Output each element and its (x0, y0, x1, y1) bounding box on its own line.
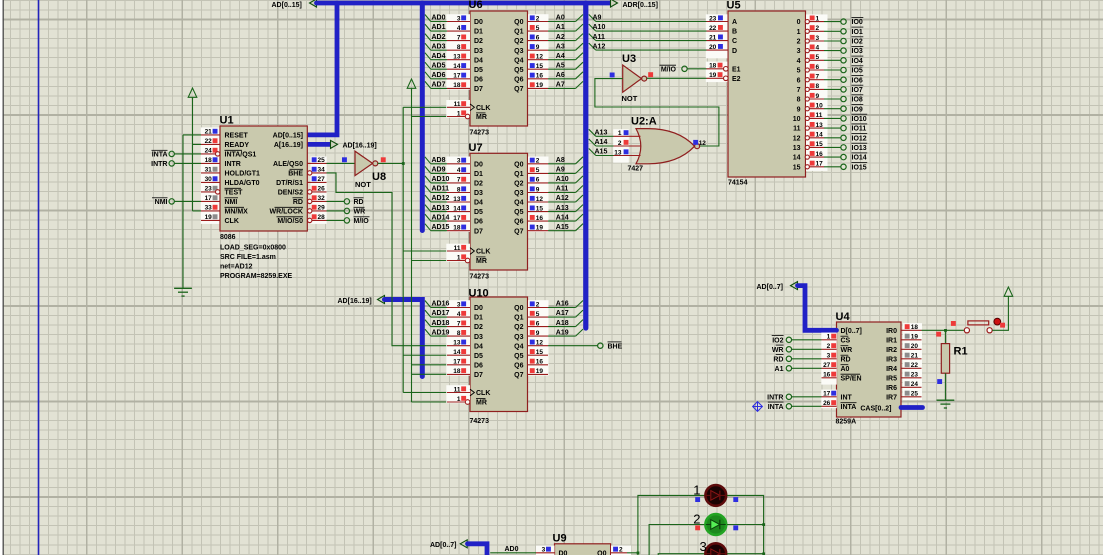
svg-text:14: 14 (453, 63, 461, 70)
terminal IO9 (824, 108, 841, 110)
wire INTR to U1 (174, 162, 201, 164)
wire R1 to ground (944, 373, 946, 400)
svg-text:9: 9 (536, 330, 540, 337)
svg-text:22: 22 (205, 138, 213, 145)
sheet blue border (38, 0, 40, 555)
svg-text:D7: D7 (474, 86, 483, 93)
net label A6 (548, 78, 576, 80)
U4 pin 24 (IR6) (901, 386, 922, 388)
svg-text:IR5: IR5 (886, 375, 897, 382)
svg-text:4: 4 (816, 44, 820, 51)
net label A9 (548, 172, 576, 174)
U10 pin 6 (Q2) (528, 326, 549, 328)
svg-text:Q6: Q6 (514, 219, 523, 226)
svg-text:0: 0 (797, 19, 801, 26)
svg-text:AD8: AD8 (432, 157, 446, 164)
svg-text:IO9: IO9 (852, 106, 863, 113)
svg-text:A11: A11 (593, 34, 606, 41)
wire bus vertical A-bus outputs (583, 3, 588, 328)
svg-text:IR3: IR3 (886, 356, 897, 363)
svg-text:2: 2 (816, 25, 820, 32)
svg-text:B: B (732, 29, 737, 36)
svg-text:D3: D3 (474, 334, 483, 341)
U10 pin 12 (Q4) (528, 345, 549, 347)
svg-text:2: 2 (618, 140, 622, 147)
U7 pin 6 (Q2) (528, 182, 549, 184)
U10 pin 14 (D5) (447, 354, 470, 356)
U6 pin 5 (Q1) (528, 30, 549, 32)
svg-text:21: 21 (709, 34, 717, 41)
U6 pin 19 (Q7) (528, 87, 549, 89)
svg-text:20: 20 (911, 343, 919, 350)
U4 pin 23 (IR5) (901, 377, 922, 379)
svg-text:U1: U1 (220, 115, 234, 127)
wire bus AD[0..7] to U4 D pins (798, 286, 837, 331)
svg-text:D7: D7 (474, 228, 483, 235)
svg-text:28: 28 (318, 214, 326, 221)
U1 pin 26 (307, 191, 326, 193)
svg-text:Q5: Q5 (514, 209, 523, 216)
gate U8 NOT (355, 151, 373, 175)
U6 pin 15 (Q5) (528, 68, 549, 70)
U6 pin 16 (Q6) (528, 78, 549, 80)
wire Q4 to BHE terminal (548, 345, 598, 347)
net label A14 (548, 220, 576, 222)
svg-text:15: 15 (816, 141, 824, 148)
svg-text:D2: D2 (474, 324, 483, 331)
svg-text:INTR: INTR (151, 161, 167, 168)
U5 pin 2 (output 1) (806, 30, 825, 32)
U1 pin 24 bubble (216, 152, 220, 156)
svg-text:DEN/S2: DEN/S2 (278, 190, 303, 197)
U7 pin 5 (Q1) (528, 172, 549, 174)
svg-text:HLDA/GT0: HLDA/GT0 (225, 180, 260, 187)
terminal INTA left (169, 151, 174, 156)
svg-text:19: 19 (709, 72, 717, 79)
svg-text:17: 17 (453, 73, 461, 80)
svg-text:21: 21 (205, 129, 213, 136)
svg-text:6: 6 (536, 177, 540, 184)
svg-text:16: 16 (823, 372, 831, 379)
svg-text:3: 3 (542, 547, 546, 554)
ground under R1 (937, 399, 955, 401)
svg-text:D1: D1 (474, 315, 483, 322)
net label A14 (596, 145, 614, 147)
U7 pin 14 (D5) (447, 211, 470, 213)
svg-text:AD[16..19]: AD[16..19] (338, 298, 372, 305)
wire U3 input from U2:A output (595, 79, 719, 146)
net label AD13 (431, 211, 447, 213)
svg-text:7: 7 (457, 177, 461, 184)
net label A17 (548, 316, 576, 318)
U5 pin 9 (output 8) (806, 98, 825, 100)
svg-text:A10: A10 (556, 176, 569, 183)
net label AD8 (431, 163, 447, 165)
U7 pin 18 (D7) (447, 230, 470, 232)
svg-text:D3: D3 (474, 190, 483, 197)
U6 pin 11 (CLK) (447, 106, 470, 108)
svg-text:23: 23 (709, 15, 717, 22)
svg-text:IO0: IO0 (852, 19, 863, 26)
svg-text:7: 7 (457, 320, 461, 327)
U4 pin 19 (IR1) (901, 339, 922, 341)
svg-text:2: 2 (536, 15, 540, 22)
U1 left pin number column (201, 127, 219, 223)
svg-text:D6: D6 (474, 76, 483, 83)
U1 pin-name overlines (225, 149, 243, 151)
svg-text:D2: D2 (474, 181, 483, 188)
net label A8 (548, 163, 576, 165)
svg-text:26: 26 (823, 400, 831, 407)
svg-text:IR7: IR7 (886, 394, 897, 401)
terminal BHE (598, 343, 603, 348)
svg-text:Q3: Q3 (514, 190, 523, 197)
svg-text:A2: A2 (556, 34, 565, 41)
svg-text:HOLD/GT1: HOLD/GT1 (225, 171, 260, 178)
svg-text:3: 3 (457, 15, 461, 22)
svg-text:74273: 74273 (470, 418, 490, 425)
wire U9 Q0 to LED1 (627, 495, 705, 555)
svg-text:A8: A8 (556, 157, 565, 164)
svg-text:M/IO: M/IO (661, 67, 677, 74)
terminal IO1 (824, 30, 841, 32)
net label A5 (548, 68, 576, 70)
svg-text:17: 17 (823, 391, 831, 398)
net label AD0 (U9) (490, 552, 536, 554)
net label AD16 (431, 307, 447, 309)
svg-text:Q1: Q1 (514, 171, 523, 178)
svg-text:AD18: AD18 (432, 320, 450, 327)
net label A18 (548, 326, 576, 328)
svg-text:A0: A0 (841, 366, 850, 373)
svg-text:A5: A5 (556, 63, 565, 70)
net label AD5 (431, 68, 447, 70)
svg-text:A0: A0 (556, 15, 565, 22)
U7 pin 7 (D2) (447, 182, 470, 184)
U4 pin 25 (IR7) (901, 396, 922, 398)
svg-text:NOT: NOT (355, 180, 371, 189)
svg-text:WR: WR (354, 209, 366, 216)
U9 pin 3 (D0) (536, 546, 555, 555)
svg-text:WR: WR (841, 347, 853, 354)
U1 pin 18 (INTR) (201, 162, 220, 164)
svg-text:SRC FILE=1.asm: SRC FILE=1.asm (220, 254, 276, 261)
svg-text:D0: D0 (474, 19, 483, 26)
U7 pin 9 (Q3) (528, 192, 549, 194)
svg-text:A18: A18 (556, 320, 569, 327)
svg-text:IO14: IO14 (852, 155, 867, 162)
net label AD7 (431, 87, 447, 89)
svg-text:16: 16 (536, 215, 544, 222)
svg-text:4: 4 (797, 58, 801, 65)
svg-text:A12: A12 (556, 195, 569, 202)
net label A9 wire from bus (596, 21, 707, 23)
svg-text:IO1: IO1 (852, 29, 863, 36)
svg-text:Q2: Q2 (514, 38, 523, 45)
U6 pin 2 (Q0) (528, 21, 549, 23)
svg-text:U5: U5 (727, 0, 741, 12)
svg-text:17: 17 (205, 195, 213, 202)
U1 pin 29 (307, 210, 326, 212)
svg-text:IO3: IO3 (852, 48, 863, 55)
svg-text:MN/MX: MN/MX (225, 209, 249, 216)
svg-text:WR: WR (772, 347, 784, 354)
svg-text:U7: U7 (469, 142, 483, 154)
svg-text:1: 1 (797, 29, 801, 36)
svg-text:Q4: Q4 (514, 57, 523, 64)
svg-text:INT: INT (841, 394, 853, 401)
svg-text:23: 23 (205, 186, 213, 193)
svg-text:IR1: IR1 (886, 337, 897, 344)
U5 pin 6 (output 5) (806, 69, 825, 71)
U4 left pin number column (821, 333, 837, 385)
net label AD0 (431, 21, 447, 23)
terminal IO11 (824, 127, 841, 129)
svg-text:1: 1 (693, 482, 700, 497)
svg-text:24: 24 (205, 148, 213, 155)
svg-text:17: 17 (816, 161, 824, 168)
svg-text:7: 7 (816, 74, 820, 81)
svg-text:20: 20 (709, 44, 717, 51)
U7 pin number columns (446, 157, 470, 232)
wire CLK trunk vertical (403, 107, 447, 392)
power terminal above U6 (407, 79, 416, 88)
U10 pin 1 (MR) (447, 401, 465, 403)
wire U8 output to CLK trunk (378, 162, 403, 164)
svg-text:RD: RD (293, 199, 303, 206)
svg-text:IO12: IO12 (852, 135, 867, 142)
svg-text:A1: A1 (556, 24, 565, 31)
wire LED2 feed (649, 525, 705, 555)
U10 pin 9 (Q3) (528, 335, 549, 337)
svg-text:15: 15 (793, 164, 801, 171)
U1 pin 23 (TEST) (201, 191, 220, 193)
svg-text:INTR: INTR (767, 394, 783, 401)
svg-text:AD0: AD0 (432, 15, 446, 22)
svg-text:CLK: CLK (476, 105, 490, 112)
wire INTA to U1 (174, 153, 201, 155)
U6 pin 9 (Q3) (528, 49, 549, 51)
net label AD14 (431, 220, 447, 222)
svg-text:18: 18 (453, 225, 461, 232)
wire bus CAS[0..2] stub (901, 405, 923, 410)
svg-text:2: 2 (693, 511, 700, 526)
svg-text:7427: 7427 (628, 166, 644, 173)
svg-text:17: 17 (453, 215, 461, 222)
net label AD12 (431, 201, 447, 203)
svg-text:Q3: Q3 (514, 334, 523, 341)
svg-text:AD16: AD16 (432, 301, 450, 308)
svg-text:AD[0..7]: AD[0..7] (757, 284, 783, 291)
terminal IO8 (824, 98, 841, 100)
svg-text:21: 21 (911, 353, 919, 360)
svg-text:1: 1 (457, 396, 461, 403)
svg-text:15: 15 (536, 205, 544, 212)
svg-text:A15: A15 (595, 149, 608, 156)
U1 pin 17 (NMI) (201, 200, 220, 202)
svg-text:AD2: AD2 (432, 34, 446, 41)
svg-text:23: 23 (911, 372, 919, 379)
U4 pin 21 (IR3) (901, 358, 922, 360)
wire LED3 feed (658, 554, 704, 555)
svg-text:29: 29 (318, 205, 326, 212)
net label A13 (548, 211, 576, 213)
svg-text:AD9: AD9 (432, 167, 446, 174)
svg-text:MR: MR (476, 114, 487, 121)
sheet left edge (0, 0, 3, 555)
svg-text:Q2: Q2 (514, 324, 523, 331)
U6 pin 3 (D0) (447, 21, 470, 23)
svg-text:CLK: CLK (476, 390, 490, 397)
svg-text:19: 19 (536, 82, 544, 89)
svg-text:WR/LOCK: WR/LOCK (270, 209, 303, 216)
power terminal above U1 (188, 88, 197, 97)
svg-text:A13: A13 (595, 130, 608, 137)
svg-text:D[0..7]: D[0..7] (841, 328, 862, 335)
svg-text:Q7: Q7 (514, 228, 523, 235)
svg-text:IO6: IO6 (852, 77, 863, 84)
U6 pin 7 (D2) (447, 40, 470, 42)
U2:A pin 12 (output) (693, 140, 698, 145)
svg-text:18: 18 (911, 324, 919, 331)
U5 pin 10 (output 9) (806, 108, 825, 110)
svg-text:13: 13 (793, 145, 801, 152)
terminal WR right of U1 (327, 210, 345, 212)
svg-text:32: 32 (318, 195, 326, 202)
terminal IO15 (824, 166, 841, 168)
svg-text:2: 2 (797, 39, 801, 46)
svg-text:3: 3 (827, 353, 831, 360)
wire bus vertical AD feed U6/U7 (420, 3, 425, 231)
terminal IO10 (824, 117, 841, 119)
svg-text:U2:A: U2:A (631, 116, 657, 128)
svg-text:6: 6 (797, 77, 801, 84)
terminal A1 at U4 (786, 366, 791, 371)
net label A12 wire from bus (596, 49, 707, 51)
wire BHE from U1 pin34 (327, 173, 448, 346)
svg-text:DT/R/S1: DT/R/S1 (276, 180, 303, 187)
svg-text:AD[0..15]: AD[0..15] (272, 2, 302, 9)
net label A12 (548, 201, 576, 203)
terminal WR at U4 (786, 347, 791, 352)
net label AD9 (431, 172, 447, 174)
svg-text:27: 27 (318, 176, 326, 183)
U4 pin 20 (IR2) (901, 348, 922, 350)
svg-text:16: 16 (536, 73, 544, 80)
svg-text:U9: U9 (553, 533, 567, 545)
net label A13 (596, 135, 614, 137)
svg-text:1: 1 (457, 110, 461, 117)
svg-text:A11: A11 (556, 186, 569, 193)
terminal M/IO right of U1 (327, 219, 345, 221)
U10 pin 18 (D7) (447, 373, 470, 375)
svg-text:4: 4 (457, 311, 461, 318)
svg-text:NOT: NOT (622, 94, 638, 103)
chip U9 74273 body (clipped) (555, 544, 611, 555)
U5 pin 18 (E1) (706, 62, 728, 83)
net label AD6 (431, 78, 447, 80)
svg-text:A7: A7 (556, 82, 565, 89)
svg-text:AD7: AD7 (432, 82, 446, 89)
svg-text:TEST: TEST (225, 190, 244, 197)
svg-text:IO8: IO8 (852, 97, 863, 104)
svg-text:16: 16 (536, 359, 544, 366)
U10 pin 13 (D4) (447, 345, 470, 347)
svg-text:CLK: CLK (476, 249, 490, 256)
svg-text:A14: A14 (595, 139, 608, 146)
U7 pin 15 (Q5) (528, 211, 549, 213)
svg-text:AD12: AD12 (432, 195, 450, 202)
LED D3 (705, 543, 726, 555)
wire M/IO to E1 (687, 68, 706, 70)
svg-text:10: 10 (816, 103, 824, 110)
U5 pin 4 (output 3) (806, 50, 825, 52)
net label A15 (596, 155, 614, 157)
svg-text:IO10: IO10 (852, 116, 867, 123)
svg-text:D1: D1 (474, 29, 483, 36)
U1 pin 34 (307, 172, 326, 174)
svg-text:6: 6 (536, 320, 540, 327)
U1 pin 30 (HLDA/GT0) (201, 181, 220, 183)
svg-text:Q7: Q7 (514, 86, 523, 93)
U10 pin 8 (D3) (447, 335, 470, 337)
svg-text:A17: A17 (556, 310, 569, 317)
svg-text:22: 22 (911, 362, 919, 369)
svg-text:MR: MR (476, 400, 487, 407)
net label AD3 (431, 49, 447, 51)
svg-text:Q0: Q0 (514, 161, 523, 168)
net label A16 (548, 307, 576, 309)
svg-text:AD5: AD5 (432, 63, 446, 70)
svg-text:U6: U6 (469, 0, 483, 11)
svg-text:31: 31 (205, 167, 213, 174)
U10 pin 11 (CLK) (447, 392, 470, 394)
U1 pin 25 (307, 162, 326, 164)
svg-text:A6: A6 (556, 72, 565, 79)
U7 pin 16 (Q6) (528, 220, 549, 222)
U5 pin 23 (A) (707, 21, 729, 23)
U1 pin 24 (INTA/QS1) (201, 153, 220, 155)
svg-text:AD15: AD15 (432, 224, 450, 231)
svg-text:3: 3 (700, 539, 707, 554)
svg-text:2: 2 (827, 343, 831, 350)
svg-text:8: 8 (457, 330, 461, 337)
svg-text:A1: A1 (775, 366, 784, 373)
svg-text:9: 9 (536, 186, 540, 193)
svg-text:IO15: IO15 (852, 164, 867, 171)
U6 pin 17 (D6) (447, 78, 470, 80)
svg-text:12: 12 (536, 340, 544, 347)
svg-text:13: 13 (453, 196, 461, 203)
svg-text:14: 14 (453, 349, 461, 356)
U5 pin 16 (output 14) (806, 156, 825, 158)
svg-text:A: A (732, 19, 737, 26)
net label A11 wire from bus (596, 40, 707, 42)
svg-text:IR0: IR0 (886, 328, 897, 335)
svg-text:15: 15 (536, 63, 544, 70)
U1 pin 19 (CLK) (201, 219, 220, 221)
U2:A pin 1 (A13) (614, 135, 641, 137)
chip U5 74154 body (728, 11, 806, 177)
svg-text:7: 7 (457, 34, 461, 41)
net label A10 wire from bus (596, 30, 707, 32)
svg-text:AD14: AD14 (432, 214, 450, 221)
U2:A pin number column (613, 129, 629, 163)
svg-text:25: 25 (318, 157, 326, 164)
net label AD10 (431, 182, 447, 184)
svg-text:U8: U8 (372, 171, 386, 183)
svg-text:AD4: AD4 (432, 53, 446, 60)
